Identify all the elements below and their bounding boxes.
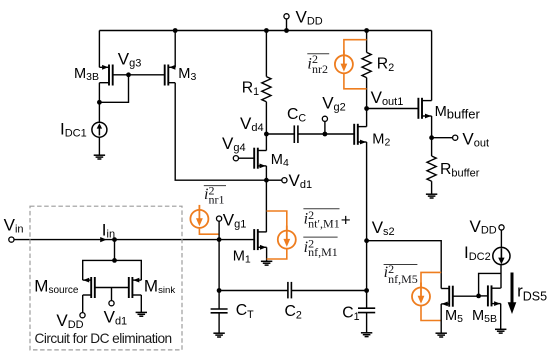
svg-text:Vout1: Vout1 — [371, 88, 404, 108]
capacitor C1 — [342, 288, 375, 333]
noise source i2nr1 — [190, 205, 219, 234]
terminal VDD right — [470, 217, 505, 248]
svg-text:rDS5: rDS5 — [517, 282, 547, 304]
svg-text:Vd1: Vd1 — [104, 308, 128, 328]
ground below IDC1 — [94, 155, 105, 159]
svg-text:Vd1: Vd1 — [289, 171, 313, 191]
svg-text:Vd4: Vd4 — [240, 114, 264, 134]
capacitor C2 — [219, 282, 367, 322]
resistor R2 — [362, 28, 394, 108]
svg-text:Iin: Iin — [102, 221, 115, 241]
svg-text:Vout: Vout — [462, 130, 489, 150]
svg-text:IDC1: IDC1 — [60, 119, 87, 139]
input wire Vin to M1 gate — [4, 216, 255, 243]
wire M2 source down to Vs2 and C1 — [366, 142, 368, 291]
svg-text:nf,M1: nf,M1 — [308, 245, 338, 259]
svg-text:CT: CT — [236, 302, 254, 321]
svg-text:R1: R1 — [242, 79, 259, 98]
label i2nr2 — [307, 52, 329, 76]
svg-text:nf,M5: nf,M5 — [388, 272, 418, 286]
svg-text:M1: M1 — [233, 248, 251, 265]
svg-text:Mbuffer: Mbuffer — [435, 104, 481, 121]
transistor Msink — [129, 277, 176, 313]
svg-text:VDD: VDD — [470, 217, 497, 237]
node Vs2 — [364, 218, 441, 288]
terminal Vg2 — [322, 94, 346, 137]
transistor Msource — [34, 277, 95, 313]
gate wire Msource-Msink with Vd1 stub — [95, 288, 129, 328]
svg-text:Vg2: Vg2 — [322, 94, 346, 114]
rds5 output resistance arrow — [508, 273, 547, 315]
ground below M1 — [261, 261, 272, 265]
node Vg3 gate wire — [97, 50, 165, 105]
noise source i2nt'M1 + i2nfM1 — [267, 211, 296, 259]
svg-text:Vg1: Vg1 — [223, 211, 247, 231]
svg-text:Vs2: Vs2 — [372, 218, 395, 238]
wire Vg1 node down to CT node — [218, 240, 220, 291]
current source IDC1 — [60, 119, 107, 155]
resistor R1 — [242, 28, 271, 134]
ground below C1 — [361, 333, 372, 337]
ground below Msink — [136, 312, 147, 316]
wire M3 drain down and right to Vd1 node — [175, 83, 266, 181]
transistor M5B — [472, 265, 501, 330]
svg-text:M5B: M5B — [472, 308, 497, 325]
svg-text:Rbuffer: Rbuffer — [440, 161, 480, 180]
noise source i2nfM5 — [412, 272, 441, 320]
transistor M1 — [233, 229, 267, 266]
svg-text:M5: M5 — [445, 308, 463, 325]
node Vout1 — [364, 88, 418, 111]
resistor Rbuffer — [427, 138, 480, 195]
terminal VDD in box — [56, 311, 85, 331]
node Vd1 — [264, 171, 312, 191]
svg-text:Vg4: Vg4 — [222, 134, 246, 154]
svg-text:M2: M2 — [372, 132, 390, 149]
noise source i2nr2 — [335, 40, 367, 89]
svg-text:VDD: VDD — [296, 8, 323, 28]
svg-text:nt′,M1: nt′,M1 — [308, 217, 340, 231]
node Vd4 — [240, 114, 269, 136]
transistor M2 — [354, 109, 390, 149]
current arrow Iin — [100, 221, 117, 243]
dashed box: circuit for DC elimination — [30, 206, 182, 350]
transistor M3 — [165, 28, 197, 85]
svg-text:C1: C1 — [342, 305, 359, 324]
label i2nt'M1 + — [303, 208, 350, 231]
svg-text:C2: C2 — [285, 303, 302, 322]
svg-text:+: + — [341, 211, 351, 230]
label i2nfM1 — [303, 236, 337, 259]
transistor Mbuffer — [418, 31, 480, 138]
top VDD rail wire — [99, 30, 431, 32]
svg-text:Msource: Msource — [34, 277, 79, 297]
ground below Rbuffer — [426, 194, 437, 198]
ground below M5 — [436, 333, 447, 337]
svg-text:Msink: Msink — [144, 277, 175, 297]
svg-text:R2: R2 — [377, 56, 394, 75]
current source IDC2 — [464, 243, 510, 265]
transistor M5 — [441, 286, 478, 334]
svg-text:CC: CC — [287, 106, 306, 125]
ground below CT — [213, 333, 224, 337]
VDD terminal (top) — [284, 8, 323, 33]
svg-text:Circuit for DC elimination: Circuit for DC elimination — [35, 331, 172, 346]
svg-text:Vin: Vin — [4, 216, 24, 236]
svg-text:nr1: nr1 — [209, 192, 225, 206]
svg-text:IDC2: IDC2 — [464, 243, 491, 263]
capacitor CT — [211, 288, 255, 333]
wire Vd1 node down to M1 drain — [265, 180, 267, 232]
terminal Vg4 — [222, 134, 254, 161]
terminal Vg1 — [217, 211, 247, 243]
svg-text:M3B: M3B — [74, 66, 99, 83]
transistor M4 — [254, 134, 289, 180]
svg-text:M4: M4 — [271, 152, 289, 169]
ground below M5B — [495, 329, 506, 333]
transistor M3B — [74, 31, 113, 123]
svg-text:Vg3: Vg3 — [118, 50, 142, 70]
capacitor CC — [266, 106, 354, 143]
svg-text:M3: M3 — [178, 66, 196, 83]
terminal Vout — [429, 130, 489, 150]
wire Iin node down into box — [83, 240, 142, 281]
label i2nr1 — [204, 184, 226, 207]
svg-text:nr2: nr2 — [312, 62, 328, 76]
label i2nfM5 — [384, 262, 418, 286]
